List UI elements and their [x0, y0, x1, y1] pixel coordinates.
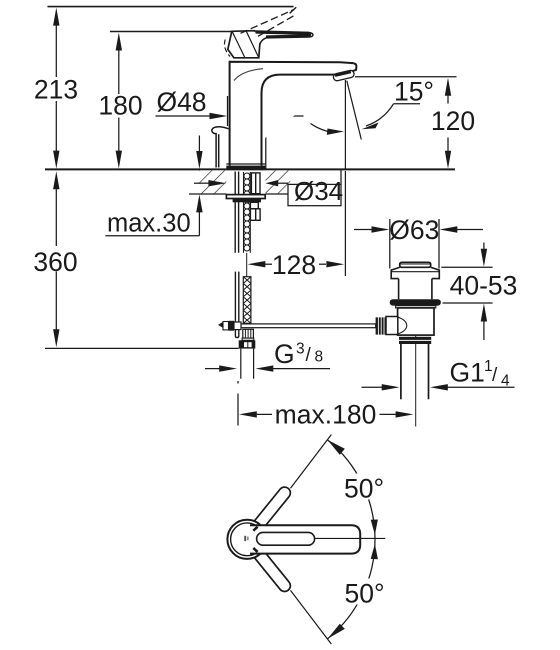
360 bottom reference line — [45, 347, 239, 349]
countertop bottom line — [189, 193, 226, 195]
dashed pivot arc — [224, 40, 230, 57]
o-ring seal black band — [390, 299, 441, 305]
svg-text:40-53: 40-53 — [450, 271, 518, 301]
linkage rod to drain — [241, 324, 376, 328]
upper 50deg boundary line — [291, 435, 332, 489]
mounting sleeve right of shank — [251, 173, 260, 194]
svg-text:120: 120 — [431, 106, 475, 136]
dashed lever raised position lower line — [258, 14, 297, 36]
water stream vertical extension — [344, 80, 346, 169]
water stream 15deg line — [347, 81, 362, 140]
arc arrowhead mid upper — [371, 520, 378, 535]
svg-text:360: 360 — [33, 247, 77, 277]
dashed lever raised position upper line — [241, 10, 295, 34]
junction tick lower — [253, 548, 257, 552]
countertop top line — [45, 168, 455, 170]
lever inner stadium — [257, 532, 315, 545]
svg-text:G1: G1 — [450, 358, 485, 388]
hose tube below nut — [241, 349, 254, 379]
svg-text:Ø48: Ø48 — [156, 87, 206, 117]
dimension 128 — [248, 171, 346, 276]
pivot ring outer — [227, 520, 266, 559]
base plate black gasket — [226, 166, 265, 170]
rod clamp white block — [234, 322, 241, 330]
reference line 180 level — [110, 31, 233, 33]
right arc of 15deg — [366, 104, 394, 126]
pivot center mark — [244, 536, 248, 542]
waste seal lower black band — [399, 337, 431, 344]
hose nipple block upper — [250, 202, 258, 209]
countertop hatch right of faucet — [266, 170, 291, 194]
lower 50deg boundary line — [291, 590, 332, 644]
dimension max.30 — [105, 136, 202, 236]
pull rod through counter upper segment — [235, 172, 238, 253]
svg-text:max.180: max.180 — [275, 400, 377, 430]
threaded shank circles — [244, 173, 250, 251]
dimension Ø48 — [156, 96, 304, 169]
svg-text:4: 4 — [501, 373, 510, 390]
svg-text:max.30: max.30 — [107, 210, 191, 238]
horseshoe washer — [226, 195, 265, 199]
spout underside and inner corner — [262, 75, 337, 166]
dimension 40-53 — [441, 243, 492, 341]
dimension max.180 — [238, 381, 413, 426]
lever axis reference line — [315, 537, 386, 539]
aerator outlet — [333, 70, 355, 82]
hose crimp flare — [242, 338, 254, 340]
svg-text:Ø34: Ø34 — [294, 176, 343, 206]
label 50deg lower — [341, 579, 392, 605]
svg-text:128: 128 — [272, 250, 316, 280]
top reference line 213 level — [48, 6, 294, 8]
pop-up waste cap disc — [400, 262, 431, 267]
step below o-ring — [396, 306, 436, 308]
pull rod lower segment — [235, 272, 238, 338]
pivot facet lines — [232, 31, 258, 57]
dimension 360 — [53, 171, 59, 347]
body inner arc at rod port — [398, 317, 407, 334]
dimension G3/8 — [205, 365, 330, 371]
lever arm — [255, 31, 313, 44]
lever handle pivot body — [228, 31, 264, 58]
drain center line — [415, 334, 417, 427]
faucet body outline — [230, 62, 357, 166]
waste tailpipe G1 1/4 — [401, 344, 429, 399]
svg-text:/: / — [306, 345, 312, 366]
svg-text:G: G — [274, 339, 295, 369]
handle top view: lower tilted lever capsule 50deg — [249, 544, 292, 594]
horizontal lever outline — [250, 525, 360, 553]
dimension G1 1/4 — [362, 384, 515, 390]
arc arrowhead lower end — [328, 624, 345, 639]
pull rod hook — [212, 127, 229, 168]
rod clamp tip — [218, 322, 223, 328]
svg-text:180: 180 — [98, 91, 142, 121]
svg-text:Ø63: Ø63 — [389, 215, 439, 245]
rod port on waste body — [386, 317, 398, 335]
junction tick upper — [253, 527, 257, 531]
arc arrowhead upper end — [328, 440, 345, 455]
svg-text:/: / — [492, 365, 498, 386]
rod clamp dark block — [229, 321, 235, 331]
body reflection line — [234, 69, 263, 81]
mounting nut — [233, 199, 261, 203]
dimension Ø63 — [354, 219, 483, 269]
arc arrowhead mid lower — [371, 544, 378, 559]
pivot ring inner — [231, 523, 264, 556]
hose nipple block lower — [250, 209, 260, 221]
G3/8 nut — [239, 340, 256, 348]
center line in break gap — [246, 253, 248, 277]
left arc of 15deg — [311, 124, 329, 132]
lever arm dark top — [256, 33, 311, 37]
svg-text:50°: 50° — [345, 578, 385, 608]
waste body — [398, 308, 434, 335]
dashed lever tip — [290, 7, 297, 13]
svg-text:213: 213 — [34, 75, 78, 105]
knurled adjuster knob — [376, 317, 386, 334]
braided hose — [243, 277, 251, 324]
box and label Ø34 — [194, 170, 343, 206]
threaded shank edges — [244, 172, 251, 253]
pop-up waste upper cylinder — [399, 279, 432, 300]
label 50deg upper — [341, 474, 392, 500]
rod clamp ridged cylinder — [223, 322, 229, 330]
handle top view: upper tilted lever capsule 50deg — [249, 485, 292, 535]
countertop hatch left of faucet — [199, 170, 226, 194]
dimension line 180 — [116, 33, 122, 169]
dimension 120 — [355, 77, 457, 169]
svg-text:3: 3 — [296, 341, 305, 358]
dimension line 213 — [53, 8, 59, 169]
hose crimp ribbed — [243, 329, 254, 338]
svg-text:8: 8 — [315, 349, 324, 366]
pop-up waste flange — [391, 267, 439, 278]
svg-text:50°: 50° — [344, 473, 384, 503]
50deg angle arc — [328, 440, 375, 639]
svg-text:15°: 15° — [394, 77, 434, 107]
